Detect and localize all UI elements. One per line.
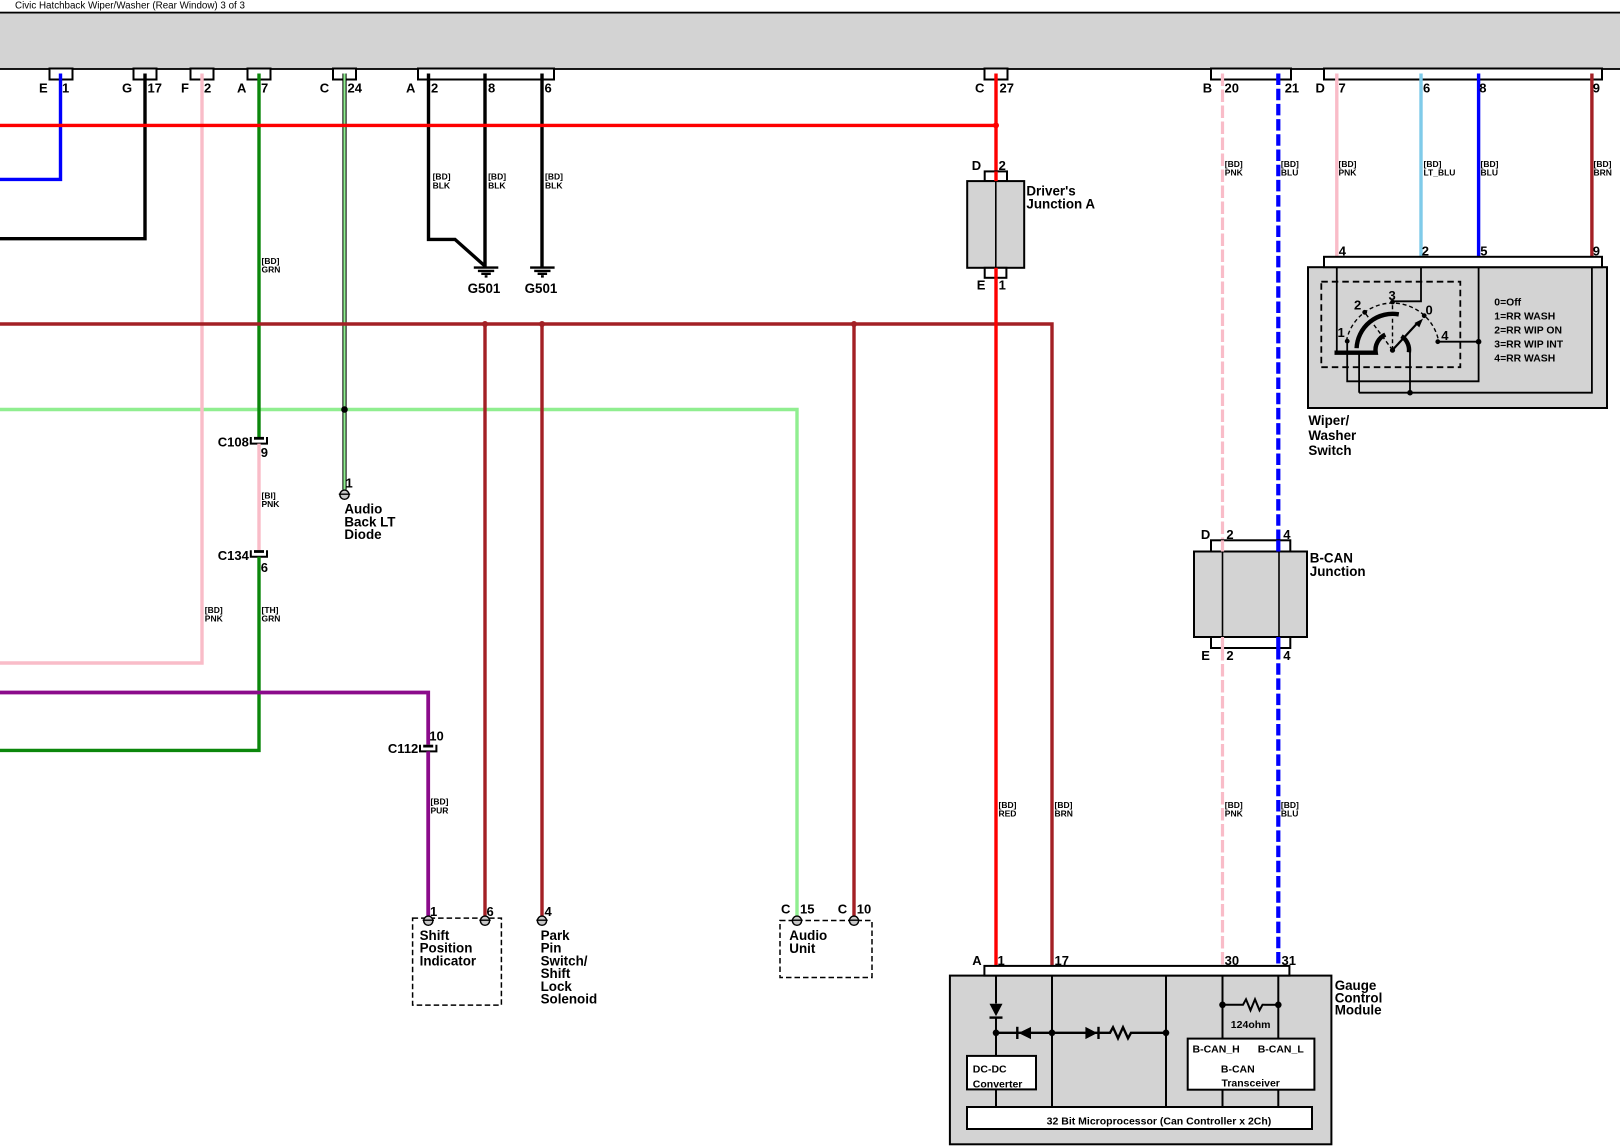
svg-text:C134: C134 [218, 548, 250, 563]
svg-text:0: 0 [1426, 303, 1433, 318]
svg-text:8: 8 [488, 80, 495, 95]
wire red E1 to gauge A1 [994, 278, 997, 966]
svg-text:0=Off: 0=Off [1494, 297, 1521, 308]
svg-text:F: F [181, 80, 189, 95]
svg-text:A: A [237, 80, 247, 95]
svg-text:1: 1 [430, 904, 437, 919]
B-CAN Junction top pin box [1211, 540, 1290, 551]
svg-text:E: E [39, 80, 48, 95]
switch thick bar and left arc [1335, 335, 1386, 353]
svg-text:1: 1 [1338, 325, 1345, 340]
junction dot brown 3 [851, 321, 857, 327]
svg-text:C108: C108 [218, 435, 249, 450]
svg-text:RED: RED [999, 809, 1017, 819]
gauge microprocessor box [967, 1107, 1312, 1129]
wire brown trunk [0, 324, 1052, 966]
wire black G17 [0, 74, 145, 239]
svg-text:BLU: BLU [1281, 168, 1298, 178]
svg-text:D: D [1316, 80, 1325, 95]
svg-text:G501: G501 [468, 281, 501, 296]
svg-text:1: 1 [999, 277, 1006, 292]
svg-text:Wiper/: Wiper/ [1308, 413, 1349, 428]
Driver's Junction A top pin box [985, 171, 1007, 181]
switch wire link center [1409, 350, 1411, 392]
svg-text:Transceiver: Transceiver [1222, 1078, 1280, 1090]
junction dot brown 2 [539, 321, 545, 327]
svg-text:Indicator: Indicator [420, 954, 477, 969]
wire brown to shift pin 6 [483, 324, 486, 916]
svg-text:1: 1 [346, 476, 353, 491]
wire green A7 upper [257, 74, 260, 438]
Driver's Junction A body [967, 181, 1024, 268]
svg-text:1: 1 [62, 80, 69, 95]
switch position dot 1 [1345, 339, 1350, 344]
wire purple upper [0, 693, 428, 745]
svg-text:6: 6 [1423, 80, 1430, 95]
svg-text:LT_BLU: LT_BLU [1424, 168, 1456, 178]
svg-text:GRN: GRN [262, 265, 281, 275]
svg-text:6: 6 [487, 904, 494, 919]
svg-text:21: 21 [1285, 80, 1299, 95]
switch rotor arrow [1393, 323, 1418, 350]
svg-text:7: 7 [261, 80, 268, 95]
svg-text:C: C [781, 901, 791, 916]
svg-text:2: 2 [204, 80, 211, 95]
switch wire pin4 entry [1336, 267, 1338, 351]
wire brown to audio C10 [852, 324, 855, 916]
wire C24 green-black striped [342, 74, 346, 490]
svg-text:2: 2 [431, 80, 438, 95]
gauge B-CAN transceiver box [1188, 1039, 1315, 1090]
wire blue dashed B21 upper [1276, 74, 1280, 541]
wire blue stub in B-CAN bottom pin box [1276, 637, 1280, 648]
wire black A6 [540, 74, 543, 267]
gauge 124ohm resistor [1223, 1004, 1242, 1006]
switch position dot 3 [1390, 300, 1395, 305]
junction dot brown 1 [482, 321, 488, 327]
svg-text:4: 4 [545, 904, 553, 919]
ground G501 first [474, 268, 499, 277]
svg-text:D: D [972, 158, 981, 173]
switch wire link left [1358, 352, 1360, 393]
wire brown to park pin 4 [540, 324, 543, 916]
svg-text:Junction: Junction [1310, 564, 1366, 579]
svg-text:2: 2 [1226, 648, 1233, 663]
svg-text:Washer: Washer [1308, 428, 1357, 443]
svg-text:Switch: Switch [1308, 443, 1351, 458]
wiper washer switch body [1308, 267, 1607, 408]
svg-text:7: 7 [1339, 80, 1346, 95]
switch wire pin2 entry [1394, 267, 1421, 301]
svg-text:A: A [972, 953, 982, 968]
wire blue E1 [0, 74, 61, 180]
svg-text:3: 3 [1389, 288, 1396, 303]
dashed box shift position indicator [413, 918, 502, 1005]
svg-text:D: D [1201, 527, 1210, 542]
wire blue D8 [1477, 74, 1480, 257]
gauge horizontal line with resistor [996, 1027, 1166, 1038]
wire pink dashed B20 upper [1221, 74, 1224, 541]
connector box G [134, 69, 157, 80]
svg-text:Junction A: Junction A [1026, 197, 1095, 212]
gauge pin31 internal wire [1277, 976, 1279, 1039]
wire pink dashed B20 lower [1221, 648, 1224, 966]
svg-text:15: 15 [800, 901, 814, 916]
switch inner dashed box [1321, 282, 1460, 368]
svg-text:DC-DC: DC-DC [973, 1064, 1007, 1076]
svg-text:4: 4 [1441, 328, 1449, 343]
wire pink F2 [0, 74, 202, 664]
svg-text:Unit: Unit [789, 941, 816, 956]
wire red stub in D2 pin box [994, 171, 997, 181]
connector box D group [1324, 69, 1602, 80]
svg-text:B: B [1203, 80, 1212, 95]
dashed box audio unit [780, 921, 872, 978]
gauge junction dot pin1 [993, 1030, 1000, 1037]
svg-text:Diode: Diode [344, 527, 381, 542]
wire pink stub in B-CAN top pin box [1221, 540, 1224, 551]
svg-text:4=RR WASH: 4=RR WASH [1494, 354, 1555, 365]
connector C112 [420, 745, 436, 752]
svg-text:Solenoid: Solenoid [541, 992, 598, 1007]
wire pink stub in B-CAN bottom pin box [1221, 637, 1224, 648]
wire purple lower [426, 751, 430, 915]
svg-text:24: 24 [348, 80, 363, 95]
wire blue dashed B21 lower [1276, 648, 1280, 966]
gauge diode down [990, 1004, 1003, 1017]
svg-text:10: 10 [429, 728, 443, 743]
svg-text:6: 6 [261, 560, 268, 575]
svg-text:PNK: PNK [1225, 168, 1244, 178]
svg-text:BLU: BLU [1281, 809, 1298, 819]
svg-text:C112: C112 [388, 741, 418, 756]
svg-text:2: 2 [999, 158, 1006, 173]
wire black A8 [483, 74, 486, 267]
svg-text:BLK: BLK [433, 180, 451, 190]
wire black A2 to ground [429, 74, 485, 266]
switch position dot 4 [1435, 339, 1440, 344]
wire pink D7 [1335, 74, 1338, 257]
svg-text:27: 27 [1000, 80, 1014, 95]
gauge pin17 internal wire [1051, 976, 1053, 1107]
connector box A7 [248, 69, 271, 80]
wire brown D9 [1590, 74, 1593, 257]
switch dashed radial to 2 [1366, 314, 1393, 351]
svg-text:32 Bit Microprocessor (Can Con: 32 Bit Microprocessor (Can Controller x … [1047, 1115, 1272, 1127]
terminal audio diode pin 1 [340, 490, 349, 499]
svg-text:17: 17 [148, 80, 162, 95]
svg-text:B-CAN_H: B-CAN_H [1193, 1044, 1240, 1056]
gauge junction dot mid [1163, 1030, 1170, 1037]
svg-text:C: C [838, 901, 848, 916]
svg-text:1=RR WASH: 1=RR WASH [1494, 311, 1555, 322]
wire blue stub in B-CAN top pin box [1276, 540, 1280, 551]
junction dot green [341, 406, 348, 413]
svg-text:G: G [122, 80, 132, 95]
wiper washer switch pin strip [1324, 257, 1602, 267]
svg-text:2=RR WIP ON: 2=RR WIP ON [1494, 325, 1562, 336]
svg-text:G501: G501 [525, 281, 558, 296]
svg-text:C: C [975, 80, 985, 95]
svg-text:Module: Module [1335, 1003, 1382, 1018]
gauge pin30 internal wire [1222, 976, 1224, 1039]
wire pink C108-C134 [257, 444, 260, 551]
switch right arc [1402, 336, 1410, 352]
wire red power horizontal [0, 124, 996, 127]
svg-text:124ohm: 124ohm [1231, 1019, 1271, 1031]
svg-text:8: 8 [1479, 80, 1486, 95]
switch wire pin9 entry [1359, 267, 1592, 393]
svg-text:4: 4 [1283, 648, 1291, 663]
gauge diode left [1016, 1027, 1018, 1039]
svg-text:BRN: BRN [1055, 809, 1073, 819]
svg-text:Civic Hatchback Wiper/Washer (: Civic Hatchback Wiper/Washer (Rear Windo… [15, 1, 245, 12]
connector box C27 [985, 69, 1008, 80]
switch position dot 0 [1422, 313, 1427, 318]
svg-text:C: C [320, 80, 330, 95]
svg-text:PUR: PUR [431, 806, 449, 816]
terminal audio C10 [849, 916, 858, 925]
wire light green trunk to audio C15 [0, 410, 797, 916]
gauge internal wire mid [1165, 976, 1167, 1107]
svg-text:2: 2 [1354, 298, 1361, 313]
connector C108 [251, 437, 267, 444]
svg-text:B-CAN: B-CAN [1221, 1063, 1255, 1075]
svg-text:B-CAN_L: B-CAN_L [1258, 1044, 1305, 1056]
gauge pin strip [984, 966, 1289, 976]
svg-text:A: A [406, 80, 416, 95]
switch wire dot4 link [1438, 341, 1479, 343]
header banner [0, 13, 1620, 69]
svg-text:10: 10 [857, 901, 871, 916]
svg-text:6: 6 [545, 80, 552, 95]
switch dashed radial to 3 [1392, 304, 1394, 351]
gauge junction dot pin17 [1049, 1030, 1056, 1037]
svg-text:PNK: PNK [262, 499, 281, 509]
switch junction dot pin5 [1476, 339, 1482, 345]
switch junction dot pin9 [1407, 390, 1413, 396]
connector box B group [1211, 69, 1291, 80]
svg-text:PNK: PNK [205, 614, 224, 624]
gauge DC-DC converter box [967, 1056, 1036, 1090]
gauge diode right [1085, 1027, 1097, 1039]
switch dashed position arc [1346, 303, 1438, 341]
switch pivot dot [1390, 348, 1395, 353]
svg-text:BLU: BLU [1481, 168, 1498, 178]
svg-text:4: 4 [1283, 527, 1291, 542]
ground G501 second [530, 268, 555, 277]
connector box E [50, 69, 73, 80]
wire red C27 vertical [994, 74, 997, 172]
svg-text:E: E [1201, 648, 1210, 663]
connector C134 [251, 550, 267, 557]
terminal park pin 4 [537, 916, 546, 925]
B-CAN Junction bottom pin box [1211, 637, 1290, 648]
svg-text:3=RR WIP INT: 3=RR WIP INT [1494, 340, 1563, 351]
terminal audio C15 [792, 916, 801, 925]
svg-text:BRN: BRN [1594, 168, 1612, 178]
wire light blue D6 [1419, 74, 1422, 257]
terminal shift pin 6 [480, 916, 489, 925]
switch position dot 2 [1362, 310, 1367, 315]
svg-text:PNK: PNK [1225, 809, 1244, 819]
svg-text:GRN: GRN [262, 614, 281, 624]
junction dot red [993, 122, 999, 128]
connector box F [191, 69, 214, 80]
switch wire pin5 entry [1347, 267, 1478, 381]
svg-text:PNK: PNK [1339, 168, 1358, 178]
svg-text:BLK: BLK [488, 180, 506, 190]
Driver's Junction A bottom pin box [985, 268, 1007, 278]
svg-text:Converter: Converter [973, 1078, 1023, 1090]
svg-text:20: 20 [1225, 80, 1239, 95]
gauge pin1 internal wire [995, 976, 997, 1004]
connector box A group [418, 69, 554, 80]
gauge control module body [950, 976, 1332, 1145]
svg-text:E: E [977, 277, 986, 292]
switch large arc [1357, 314, 1399, 348]
svg-text:9: 9 [1593, 80, 1600, 95]
B-CAN Junction body [1194, 552, 1307, 638]
svg-text:9: 9 [261, 445, 268, 460]
terminal shift pin 1 [424, 916, 433, 925]
wire red stub in E1 pin box [994, 268, 997, 278]
svg-text:BLK: BLK [545, 180, 563, 190]
connector box C24 [333, 69, 356, 80]
wire green C134 lower [0, 557, 259, 751]
svg-text:2: 2 [1226, 527, 1233, 542]
